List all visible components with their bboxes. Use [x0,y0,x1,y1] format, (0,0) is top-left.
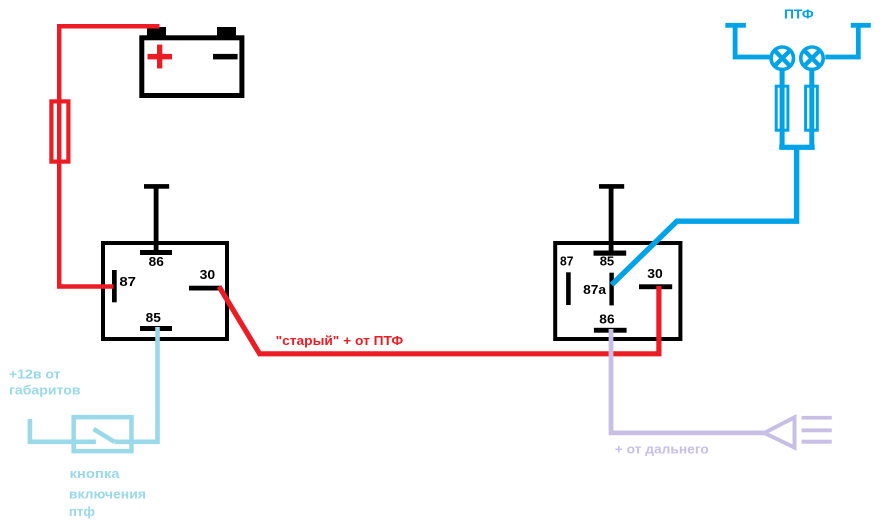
wire relay K1 pin 30 to relay K2 pin 30 (old fog lamp plus) [219,286,659,354]
svg-text:87a: 87a [583,282,607,297]
high beam lamp symbol rays [802,416,832,444]
wire relay K1 pin 85 to switch [114,327,157,442]
relay K2 body [555,243,680,339]
svg-text:86: 86 [149,254,164,269]
relay K1 pin 86 terminal antenna [140,184,172,255]
battery GB1 [142,27,242,96]
fuse F3 right lamp [806,86,818,130]
wire switch to parking lights supply [30,419,96,442]
wire battery plus to fuse and relay1 pin 87 [59,26,159,286]
svg-text:85: 85 [600,253,615,268]
relay K1 pin 87 [112,270,117,302]
switch SA1 body [74,417,132,451]
relay K1 pin 85 [140,326,172,331]
wire fog lamps to relay K2 pin 87a [612,148,797,285]
switch SA1 lever [94,429,115,442]
relay K2 pin 87a [609,273,613,306]
relay K1 pin 30 [189,286,220,291]
fuse F2 left lamp [776,86,788,130]
svg-text:85: 85 [146,310,161,325]
wire through left lamp fuse [780,69,785,149]
svg-text:включения: включения [69,486,146,501]
svg-text:габаритов: габаритов [9,383,81,398]
svg-text:86: 86 [599,312,614,327]
fuse F1 [51,101,68,161]
relay K1 body [103,243,227,339]
lamp EL2 right fog lamp [801,47,823,69]
svg-text:87: 87 [560,253,573,268]
high beam lamp symbol triangle [764,417,794,447]
svg-text:87: 87 [119,274,136,289]
relay K2 pin 30 [639,284,672,289]
fog lamp supply terminal left [725,23,769,57]
relay K2 pin 85 terminal antenna [594,184,627,256]
svg-text:кнопка: кнопка [70,466,121,481]
svg-text:ПТФ: ПТФ [784,7,814,22]
relay K2 pin 86 [594,328,627,333]
svg-text:+12в от: +12в от [9,366,61,381]
wire relay K2 pin 86 to high beam [611,329,764,433]
lamp EL1 left fog lamp [771,47,793,69]
fog lamp supply terminal right [825,23,871,57]
relay K2 pin 87 [566,272,571,305]
wire through right lamp fuse [809,69,814,149]
svg-text:"старый" + от ПТФ: "старый" + от ПТФ [276,333,404,348]
svg-text:30: 30 [200,267,216,282]
svg-text:+ от дальнего: + от дальнего [615,442,709,457]
junction bar below lamp fuses [779,145,815,150]
svg-text:30: 30 [647,266,663,281]
svg-text:птф: птф [69,504,95,519]
